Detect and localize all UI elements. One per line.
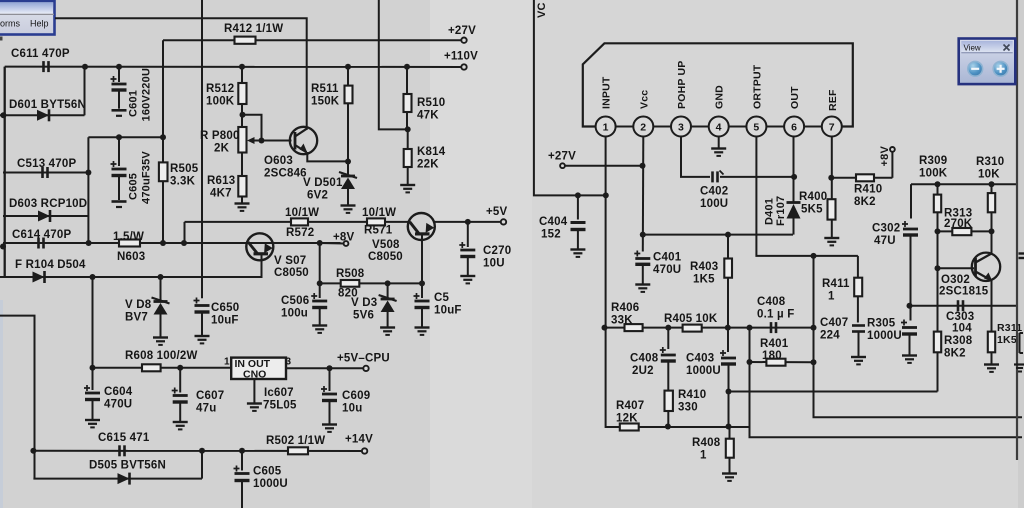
capacitor C605 — [118, 137, 120, 166]
svg-text:R311: R311 — [997, 322, 1022, 334]
capacitor C650 — [194, 298, 200, 304]
node R505-N603 — [160, 240, 166, 246]
resistor R403 — [727, 235, 729, 259]
svg-text:5K5: 5K5 — [801, 204, 823, 216]
svg-text:O302: O302 — [941, 274, 970, 286]
node Vcc-C401row — [640, 232, 646, 238]
ground C609 — [322, 423, 337, 425]
node rail-R510 — [404, 64, 410, 70]
wire R308 return row — [729, 391, 938, 393]
wire plus8 stub — [320, 242, 344, 245]
svg-text:CNO: CNO — [243, 369, 266, 381]
svg-text:C607: C607 — [196, 390, 224, 402]
svg-text:+8V: +8V — [879, 146, 891, 167]
transistor O302 — [972, 253, 1000, 281]
wire C303 row — [910, 305, 1017, 307]
node row137-R505 — [160, 134, 166, 140]
svg-text:D401: D401 — [764, 198, 776, 225]
node emitter-VD8 — [158, 274, 164, 280]
svg-text:Help: Help — [30, 19, 49, 29]
capacitor C401 — [634, 251, 640, 257]
ground C604 — [85, 419, 100, 421]
svg-text:47K: 47K — [417, 110, 439, 122]
node D505 right — [199, 448, 205, 454]
wire R608 row — [93, 367, 232, 369]
resistor R412 — [235, 37, 256, 44]
svg-text:470uF35V: 470uF35V — [141, 151, 153, 204]
pin 6 circle — [784, 117, 804, 137]
wire C407 stem — [858, 332, 860, 357]
ground V D8 — [153, 336, 168, 338]
svg-text:1.5/W: 1.5/W — [113, 231, 144, 243]
svg-text:C5: C5 — [434, 292, 450, 304]
svg-text:R411: R411 — [822, 278, 850, 290]
ground pin4 GND — [711, 147, 726, 149]
wire C513 row — [3, 172, 88, 174]
resistor R511 — [347, 67, 349, 86]
svg-text:C8050: C8050 — [274, 267, 309, 279]
svg-text:100u: 100u — [281, 308, 308, 320]
svg-text:D601 BYT56N: D601 BYT56N — [9, 99, 86, 111]
scan shading — [430, 0, 532, 508]
svg-text:2: 2 — [640, 122, 646, 134]
wire C615 feed — [0, 316, 35, 479]
node R508-VD3 — [385, 280, 391, 286]
svg-text:R309: R309 — [919, 155, 947, 167]
wire D603 row — [3, 215, 88, 217]
svg-text:O603: O603 — [264, 155, 293, 167]
resistor R502 — [288, 447, 308, 454]
svg-text:C402: C402 — [700, 186, 728, 198]
transistor V508 — [408, 213, 435, 240]
svg-text:1000U: 1000U — [867, 330, 902, 342]
node R401 left — [747, 359, 753, 365]
svg-text:C8050: C8050 — [368, 251, 403, 263]
svg-text:R412 1/1W: R412 1/1W — [224, 23, 283, 35]
resistor R407 — [620, 424, 639, 431]
svg-text:10U: 10U — [483, 258, 505, 270]
resistor N603 — [119, 240, 140, 247]
node rail-R511 — [345, 64, 351, 70]
zener V D501 — [347, 161, 349, 176]
node bus-D601 — [0, 112, 6, 118]
capacitor C402 — [711, 171, 714, 182]
svg-text:C303: C303 — [946, 311, 974, 323]
node C605b — [239, 448, 245, 454]
svg-text:BV7: BV7 — [125, 312, 148, 324]
node R405 left — [665, 325, 671, 331]
wire pin1 stem — [605, 137, 607, 328]
svg-text:R406: R406 — [611, 302, 639, 314]
node R572-N603 — [181, 240, 187, 246]
svg-text:V508: V508 — [372, 239, 400, 251]
svg-text:R571: R571 — [364, 225, 393, 237]
svg-text:270K: 270K — [944, 218, 973, 230]
svg-text:470U: 470U — [653, 264, 681, 276]
node R313 right — [989, 228, 995, 234]
node pin1-R406 — [602, 325, 608, 331]
resistor R571 — [367, 218, 385, 225]
wire VCC bus — [534, 0, 606, 195]
capacitor C604 — [92, 368, 94, 390]
capacitor C605 1000U — [241, 451, 243, 471]
wiper arrow — [252, 140, 262, 142]
diode D601 — [37, 110, 49, 121]
svg-text:104: 104 — [952, 323, 972, 335]
wire +27V to Vcc — [565, 165, 643, 167]
terminal +27V right — [560, 163, 565, 168]
wire pin links — [616, 126, 634, 128]
svg-text:C614 470P: C614 470P — [12, 229, 71, 241]
svg-text:R407: R407 — [616, 400, 644, 412]
terminal +5V — [501, 219, 506, 224]
zoom out button — [968, 61, 983, 76]
svg-text:150K: 150K — [311, 96, 340, 108]
svg-text:7: 7 — [829, 122, 835, 134]
svg-text:C408: C408 — [757, 296, 786, 308]
svg-text:R510: R510 — [417, 97, 445, 109]
svg-text:100K: 100K — [206, 96, 235, 108]
ground C407 — [851, 356, 866, 358]
svg-text:+14V: +14V — [345, 434, 373, 446]
svg-text:R310: R310 — [976, 156, 1004, 168]
wire 813 bus — [814, 256, 1023, 417]
wire D505 riser — [201, 451, 203, 479]
svg-text:C513 470P: C513 470P — [17, 158, 76, 170]
ground V D3 — [380, 326, 395, 328]
wire pin7 stem — [831, 137, 833, 200]
svg-text:+27V: +27V — [548, 151, 576, 163]
zener V D3 — [387, 283, 389, 299]
svg-text:C270: C270 — [483, 245, 511, 257]
wire pin4 stem — [718, 137, 720, 149]
chassis C601 — [112, 109, 127, 112]
svg-text:2K: 2K — [214, 143, 230, 155]
resistor R400 — [828, 199, 836, 219]
svg-text:75L05: 75L05 — [263, 400, 297, 412]
chassis C605 — [112, 200, 127, 203]
svg-text:+5V: +5V — [486, 206, 508, 218]
svg-text:C609: C609 — [342, 390, 370, 402]
svg-text:+8V: +8V — [333, 232, 355, 244]
svg-text:10K: 10K — [978, 169, 1000, 181]
wire O603 emitter — [307, 152, 348, 161]
wire R401 row — [750, 361, 814, 363]
wire wiper link — [243, 115, 262, 141]
wire O302 base bus — [937, 231, 939, 331]
resistor K814 — [407, 129, 409, 149]
svg-text:C407: C407 — [820, 317, 848, 329]
svg-text:R511: R511 — [311, 83, 339, 95]
transistor V S07 — [246, 233, 273, 260]
svg-text:1: 1 — [828, 291, 835, 303]
svg-text:3: 3 — [678, 122, 684, 134]
svg-text:R410: R410 — [678, 389, 706, 401]
wire VS07 emitter — [161, 257, 262, 277]
wire reservoir row — [88, 136, 163, 138]
svg-text:C605: C605 — [128, 173, 140, 200]
svg-text:224: 224 — [820, 330, 840, 342]
svg-text:R512: R512 — [206, 83, 234, 95]
svg-text:C615 471: C615 471 — [98, 432, 150, 444]
svg-text:R405 10K: R405 10K — [664, 313, 718, 325]
svg-text:470U: 470U — [104, 399, 132, 411]
svg-text:C506: C506 — [281, 295, 309, 307]
svg-text:0.1 µ F: 0.1 µ F — [757, 309, 794, 321]
svg-text:V D3: V D3 — [351, 297, 377, 309]
node base row — [935, 265, 941, 271]
svg-text:47U: 47U — [874, 235, 896, 247]
node R608 left — [90, 365, 96, 371]
regulator IC607 box — [231, 358, 286, 379]
node R313 left — [935, 228, 941, 234]
svg-text:8K2: 8K2 — [854, 196, 876, 208]
node bus-C614 — [0, 244, 6, 250]
svg-text:+5V–CPU: +5V–CPU — [337, 353, 390, 365]
wire base O603 — [262, 140, 292, 142]
ground C270 — [460, 275, 475, 277]
node FR104-C604 — [90, 274, 96, 280]
wire R407 row — [606, 328, 750, 427]
svg-text:3: 3 — [286, 357, 292, 368]
svg-text:10u: 10u — [342, 403, 362, 415]
ground C506 — [312, 324, 327, 326]
wire R412 drop — [162, 40, 164, 243]
svg-text:C408: C408 — [630, 353, 659, 365]
wire O302 emitter — [991, 281, 993, 332]
resistor R310 — [991, 184, 993, 193]
svg-text:33K: 33K — [611, 315, 633, 327]
page edge line — [1016, 0, 1018, 460]
svg-text:10uF: 10uF — [211, 315, 239, 327]
svg-text:12K: 12K — [616, 413, 638, 425]
capacitor C506 — [319, 283, 321, 298]
svg-text:R401: R401 — [760, 338, 789, 350]
node R401 branch — [747, 325, 753, 331]
svg-text:R508: R508 — [336, 268, 365, 280]
svg-text:C401: C401 — [653, 252, 682, 264]
transistor O603 — [290, 127, 317, 154]
svg-text:180: 180 — [762, 350, 782, 362]
wire C402 row — [720, 176, 794, 178]
svg-text:R505: R505 — [170, 163, 199, 175]
wire K814 feed — [379, 0, 408, 129]
wire F R104 row — [0, 276, 161, 278]
capacitor C615 — [118, 445, 121, 456]
resistor R410 330 — [665, 391, 673, 411]
resistor R313 — [952, 228, 971, 235]
wire R572 riser — [184, 222, 186, 243]
node pin7-R410 — [828, 175, 834, 181]
wire plus8 drop — [319, 243, 321, 283]
resistor R406 — [625, 324, 643, 331]
View toolbar window — [959, 39, 1016, 85]
node row137-C605 — [116, 134, 122, 140]
wire R572 row — [185, 221, 409, 223]
ground V D501 — [341, 204, 356, 206]
svg-text:+110V: +110V — [444, 51, 478, 63]
svg-text:100U: 100U — [700, 198, 728, 210]
svg-text:1K5: 1K5 — [693, 274, 715, 286]
svg-text:2SC1815: 2SC1815 — [939, 286, 989, 298]
svg-text:K814: K814 — [417, 146, 446, 158]
wire top line — [55, 18, 307, 129]
svg-text:R613: R613 — [207, 175, 235, 187]
svg-text:160V220U: 160V220U — [141, 68, 153, 122]
View close button — [1004, 45, 1010, 51]
ground C650 — [195, 335, 210, 337]
svg-text:4K7: 4K7 — [210, 188, 232, 200]
svg-text:Vcc: Vcc — [638, 90, 650, 109]
node mid-bus-N603 — [86, 240, 92, 246]
wire D505 row — [33, 478, 202, 480]
wire D601 row — [0, 114, 85, 116]
svg-text:V D501: V D501 — [303, 177, 343, 189]
capacitor C614 — [37, 238, 40, 249]
ground IC607 — [247, 402, 262, 404]
terminal +8V right — [890, 147, 895, 152]
capacitor C611 — [42, 61, 45, 72]
capacitor C270 — [467, 222, 469, 247]
wire +27V line — [163, 39, 462, 41]
node rail-R512 — [239, 64, 245, 70]
svg-text:F R104 D504: F R104 D504 — [15, 259, 86, 271]
wire D601 loop right — [84, 67, 86, 116]
svg-text:R410: R410 — [854, 184, 882, 196]
ground C5 — [415, 326, 430, 328]
svg-text:330: 330 — [678, 402, 698, 414]
ground R311 — [984, 363, 999, 365]
wire 749 bus — [750, 328, 1023, 438]
node C403-R407row — [726, 424, 732, 430]
node rail-R309 — [935, 181, 941, 187]
svg-text:V S07: V S07 — [274, 255, 306, 267]
svg-text:R305: R305 — [867, 318, 896, 330]
terminal +5V-CPU — [363, 366, 368, 371]
svg-text:R608 100/2W: R608 100/2W — [125, 350, 198, 362]
svg-text:152: 152 — [541, 229, 561, 241]
svg-text:2SC846: 2SC846 — [264, 168, 307, 180]
edge capacitor — [1019, 252, 1024, 254]
resistor R311 — [988, 332, 995, 353]
svg-text:100K: 100K — [919, 168, 948, 180]
wire R410 row — [832, 177, 856, 179]
svg-text:C302: C302 — [872, 223, 900, 235]
capacitor C408 2U2 — [667, 328, 669, 349]
capacitor C609 — [329, 368, 331, 391]
svg-text:C611 470P: C611 470P — [11, 48, 70, 60]
node R512-wiper — [240, 112, 246, 118]
node rail-C601 — [116, 64, 122, 70]
pin 7 circle — [822, 117, 842, 137]
svg-text:REF: REF — [827, 89, 839, 111]
wire IC607 gnd stem — [253, 379, 255, 403]
capacitor C302 — [910, 184, 912, 218]
ground R613 — [235, 202, 250, 204]
svg-text:1000U: 1000U — [253, 478, 288, 490]
node bus-C513 — [85, 170, 91, 176]
ground R305 — [902, 354, 917, 356]
ground C401 — [635, 283, 650, 285]
capacitor C407 — [852, 324, 865, 327]
wire +5V row — [435, 221, 501, 223]
diode D505 — [118, 473, 130, 484]
svg-text:Ic607: Ic607 — [264, 387, 294, 399]
potentiometer R P800 — [238, 127, 246, 153]
svg-text:2U2: 2U2 — [632, 365, 654, 377]
svg-text:orms: orms — [0, 19, 20, 29]
node C402-pin6 — [791, 174, 797, 180]
capacitor C408 01 — [770, 322, 773, 333]
wire IC607 out row — [286, 367, 363, 369]
node wiper join — [259, 138, 265, 144]
ground R408 — [722, 472, 737, 474]
svg-text:C604: C604 — [104, 386, 133, 398]
node C401row-R403 — [725, 232, 731, 238]
svg-text:5V6: 5V6 — [353, 310, 374, 322]
svg-text:R400: R400 — [799, 191, 827, 203]
svg-text:D505 BVT56N: D505 BVT56N — [89, 460, 166, 472]
svg-text:R572: R572 — [286, 227, 314, 239]
wire pin2 stem — [642, 137, 645, 252]
node R508-C5 — [419, 280, 425, 286]
diode D401 — [787, 201, 801, 204]
node out-C609 — [327, 365, 333, 371]
diode F R104 D504 — [33, 272, 45, 283]
svg-text:+27V: +27V — [448, 25, 476, 37]
resistor R410 8K2 — [856, 174, 874, 181]
node input join — [603, 192, 609, 198]
node C403-R391row — [726, 389, 732, 395]
node 813-R401 — [811, 359, 817, 365]
svg-text:VC: VC — [536, 2, 548, 18]
capacitor C404 — [577, 195, 579, 219]
svg-text:INPUT: INPUT — [601, 76, 613, 109]
svg-text:R502 1/1W: R502 1/1W — [266, 435, 325, 447]
svg-text:POHP UP: POHP UP — [676, 61, 688, 109]
zoom in button — [993, 61, 1008, 76]
wire base row — [938, 267, 975, 269]
svg-text:1K5: 1K5 — [997, 334, 1017, 346]
resistor R401 — [766, 359, 785, 366]
ground C404 — [570, 248, 585, 250]
svg-text:OUT: OUT — [789, 86, 801, 109]
resistor R512 — [241, 67, 243, 83]
svg-text:1000U: 1000U — [686, 365, 721, 377]
resistor R572 — [291, 218, 308, 225]
node R510-K814 — [405, 126, 411, 132]
wire pin5 stem — [756, 137, 858, 256]
svg-text:1: 1 — [603, 122, 609, 134]
node 813-row327 — [811, 325, 817, 331]
wire C604 drop — [92, 277, 94, 368]
svg-text:GND: GND — [714, 85, 726, 109]
pin 3 circle — [671, 117, 691, 137]
svg-text:8K2: 8K2 — [944, 348, 966, 360]
svg-text:10/1W: 10/1W — [285, 207, 319, 219]
zener V D8 — [160, 277, 162, 302]
capacitor C601 — [118, 67, 120, 82]
capacitor C403 — [727, 328, 729, 352]
capacitor R305 1000U — [910, 306, 912, 321]
svg-text:10/1W: 10/1W — [362, 207, 396, 219]
ground R400 — [824, 237, 839, 239]
ground K814 — [400, 184, 415, 186]
resistor R411 — [857, 256, 859, 278]
svg-text:R403: R403 — [690, 261, 718, 273]
svg-text:V D8: V D8 — [125, 299, 152, 311]
wire O302 collector — [991, 231, 993, 253]
